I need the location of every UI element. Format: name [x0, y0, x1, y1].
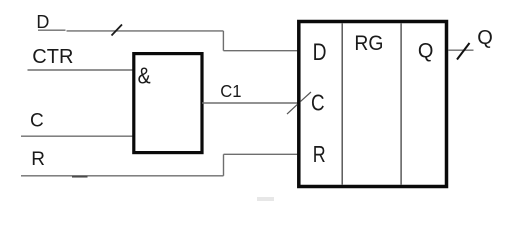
wire: D input horizontal segment [38, 29, 223, 32]
bus slash on C1 wire at RG C input [287, 92, 311, 114]
svg-text:D: D [36, 12, 49, 32]
svg-text:R: R [313, 142, 326, 168]
svg-text:Q: Q [477, 27, 493, 49]
RG internal divider right [400, 23, 402, 185]
svg-text:CTR: CTR [32, 46, 73, 68]
svg-text:C: C [30, 111, 44, 132]
bus slash on Q output [457, 43, 470, 60]
svg-text:R: R [31, 149, 45, 170]
wire: CTR to AND gate input [28, 69, 135, 71]
AND gate U1 box [134, 54, 202, 153]
wire: Q output [448, 49, 474, 51]
wire: R vertical rise [223, 154, 225, 176]
register RG box [299, 22, 447, 187]
wire: AND output C1 to RG C input [202, 102, 299, 104]
wire: R horizontal segment [21, 175, 224, 177]
wire: C to AND gate input [21, 135, 134, 137]
wire: R into RG R input [224, 153, 300, 155]
wire: overdrawn dash on R wire [72, 176, 88, 178]
wire: D vertical drop [222, 31, 224, 51]
svg-text:C1: C1 [220, 81, 241, 100]
svg-text:RG: RG [354, 31, 383, 55]
svg-text:C: C [311, 89, 325, 116]
wire: D into RG D input [223, 50, 299, 52]
svg-text:D: D [313, 38, 327, 66]
svg-text:Q: Q [418, 39, 434, 63]
bus slash on D wire [112, 25, 123, 36]
RG internal divider left [341, 23, 343, 185]
svg-text:&: & [138, 63, 151, 89]
